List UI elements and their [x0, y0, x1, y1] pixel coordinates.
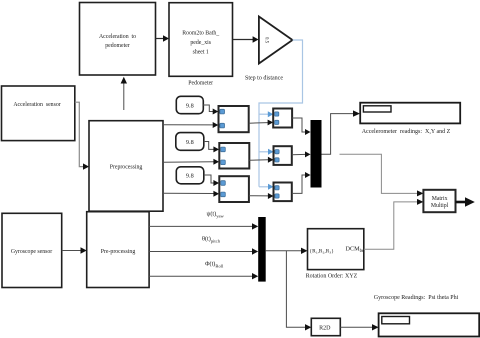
- wire: Gyroscope sensor to Pre-processing: [62, 247, 87, 253]
- display: Gyroscope readings: [379, 313, 480, 336]
- wire: Pre-processing out yaw to mux2: [149, 223, 258, 229]
- block: DCM (Rotation Order XYZ): [308, 229, 365, 270]
- svg-text:0.5: 0.5: [264, 37, 269, 44]
- gain block 9.8 #3: [176, 167, 204, 184]
- svg-text:Step to distance: Step to distance: [245, 76, 283, 82]
- svg-text:sheet 1: sheet 1: [193, 50, 209, 56]
- svg-text:Rotation Order: XYZ: Rotation Order: XYZ: [306, 274, 358, 280]
- svg-text:Pedometer: Pedometer: [188, 81, 213, 87]
- product block 1: [219, 106, 249, 132]
- svg-text:Acceleration sensor: Acceleration sensor: [13, 102, 60, 108]
- svg-text:Acceleration to: Acceleration to: [99, 34, 136, 40]
- block: R2D: [311, 318, 340, 335]
- wire: gain output (blue) down to sum blocks column: [259, 40, 303, 190]
- svg-text:pedometer: pedometer: [105, 43, 130, 49]
- product block 2: [219, 143, 249, 169]
- wire: pedometer block to Room2to block: [156, 35, 170, 42]
- wire: sum 2 to mux1 input 2: [292, 151, 311, 157]
- sum block 1: [273, 109, 292, 128]
- block: Room2to Bath_pede_xis sheet 1 (Pedometer): [169, 3, 233, 77]
- wire: product 2 to sum block 2 input 2: [249, 157, 273, 163]
- wire: mux2 output branch down to R2D: [286, 251, 311, 331]
- svg-text:Matrix: Matrix: [432, 196, 448, 202]
- svg-text:Multipl: Multipl: [431, 203, 449, 209]
- wire: Acceleration sensor to Preprocessing: [75, 102, 89, 170]
- svg-text:{R₁,R₂,R₃}: {R₁,R₂,R₃}: [310, 249, 335, 255]
- wire: mux1 output branch to Matrix Multiply input 1: [340, 154, 424, 196]
- svg-text:Gyroscope sensor: Gyroscope sensor: [11, 249, 52, 255]
- block: Gyroscope sensor: [2, 213, 62, 287]
- wire: dangling arrow up into pedometer block: [121, 77, 127, 110]
- mux2 (vertical black bar): [258, 217, 266, 282]
- svg-text:9.8: 9.8: [186, 103, 194, 110]
- block: Acceleration to pedometer: [80, 3, 156, 76]
- wire: mux2 output to DCM block: [266, 248, 308, 254]
- svg-text:R2D: R2D: [319, 325, 331, 331]
- svg-text:Room2to Bath_: Room2to Bath_: [182, 31, 219, 37]
- wire: 9.8 #1 to product block 1 input 1: [203, 105, 218, 115]
- gain block 9.8 #2: [176, 133, 204, 151]
- svg-text:Pre-processing: Pre-processing: [101, 249, 136, 255]
- svg-text:Gyroscope Readings: Psi theta: Gyroscope Readings: Psi theta Phi: [374, 295, 459, 301]
- block: Matrix Multiply: [423, 190, 455, 212]
- wire: Matrix Multiply wide output arrow: [456, 197, 475, 207]
- gain triangle 0.5 (Step to distance): [259, 17, 293, 64]
- wire: Preprocessing out 2 to product block 2 input 2: [163, 159, 219, 165]
- wire: mux1 output to accelerometer display: [322, 110, 361, 154]
- wire: Pre-processing out roll to mux2: [149, 273, 258, 279]
- wire: 9.8 #3 to product block 3 input 1: [204, 175, 219, 186]
- mux1 (vertical black bar): [311, 120, 322, 188]
- wire: product 3 to sum block 3 input 2: [249, 193, 274, 199]
- wire: DCM output to Matrix Multiply input 2: [364, 199, 424, 249]
- product block 3: [219, 176, 249, 202]
- svg-text:9.8: 9.8: [186, 139, 194, 146]
- block: Acceleration sensor: [2, 86, 75, 141]
- wire: sum 1 to mux1 input 1: [292, 118, 310, 135]
- wire: sum 3 to mux1 input 3: [292, 172, 311, 193]
- wire: Pre-processing out pitch to mux2: [149, 248, 258, 254]
- wire: 9.8 #2 to product block 2 input 1: [204, 142, 219, 153]
- svg-text:Accelerometer readings: X,Y: Accelerometer readings: X,Y and Z: [362, 129, 451, 135]
- sum block 3: [274, 183, 292, 202]
- svg-text:9.8: 9.8: [186, 173, 194, 180]
- display: Accelerometer readings: [360, 103, 460, 124]
- wire: R2D to gyroscope display: [340, 324, 378, 330]
- svg-text:Preprocessing: Preprocessing: [110, 165, 143, 171]
- wire: Preprocessing out 1 to product block 1 input 2: [163, 122, 218, 128]
- wire: Preprocessing out 3 to product block 3 input 2: [163, 191, 219, 197]
- sum block 2: [274, 146, 292, 165]
- svg-text:pede_xis: pede_xis: [190, 40, 211, 46]
- gain block 9.8 #1: [176, 96, 203, 113]
- wire: product 1 to sum block 1 input 2: [249, 120, 273, 126]
- block: Pre-processing: [87, 212, 149, 288]
- block: Preprocessing: [89, 121, 163, 212]
- wire: Room2to block to gain triangle: [233, 36, 259, 43]
